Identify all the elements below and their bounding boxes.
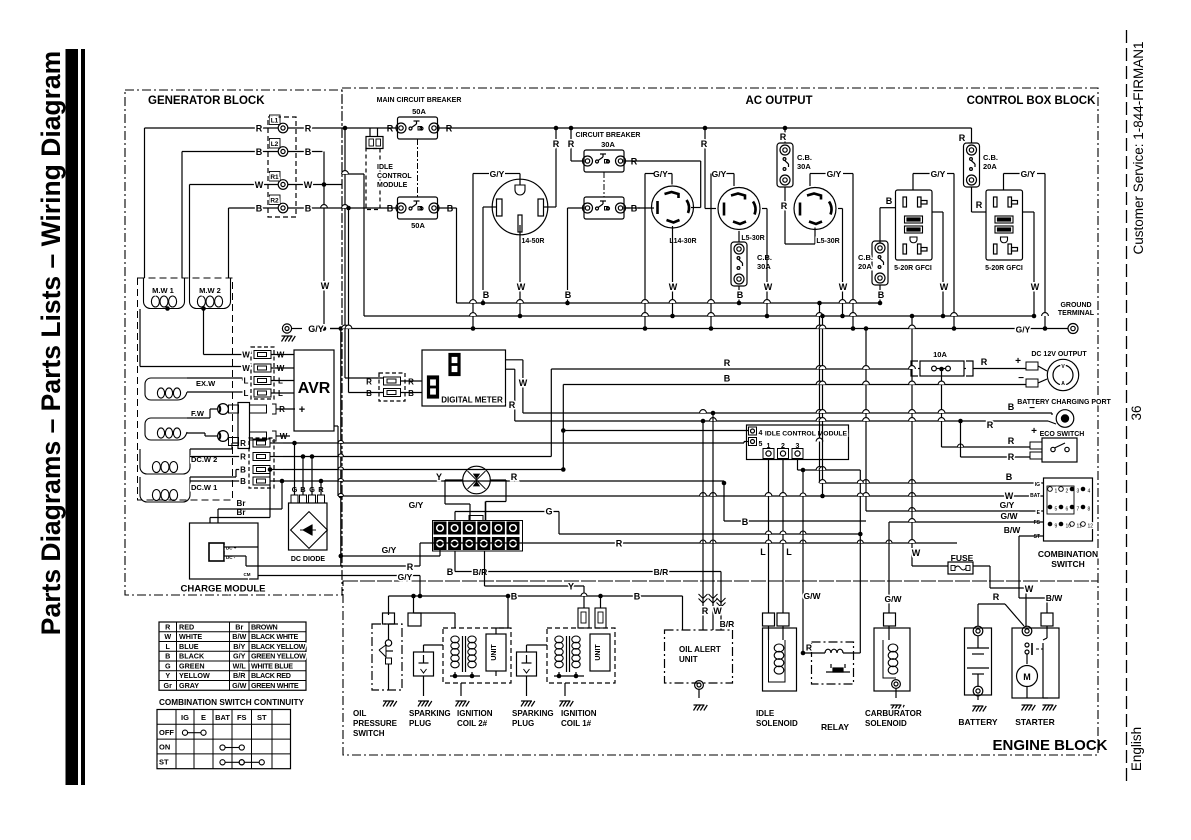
svg-text:IDLE CONTROL MODULE: IDLE CONTROL MODULE <box>765 431 848 438</box>
combination switch <box>1044 478 1093 541</box>
svg-text:GRAY: GRAY <box>179 681 199 690</box>
GFCI receptacle 5-20R no.2 <box>986 190 1023 260</box>
svg-text:4: 4 <box>759 430 763 437</box>
svg-text:DC.W 1: DC.W 1 <box>191 483 217 492</box>
idle module pin3 wire <box>797 459 799 471</box>
svg-text:20A: 20A <box>858 262 872 271</box>
wire B to L14-30R left pin <box>624 207 654 209</box>
svg-text:B: B <box>511 592 518 602</box>
svg-text:B/W: B/W <box>1004 525 1022 535</box>
svg-text:RED: RED <box>179 622 194 631</box>
svg-text:B: B <box>240 477 246 486</box>
wire B/R line to oil alert <box>455 571 721 573</box>
wire B riser from AVR B row <box>562 385 564 470</box>
terminal R2 <box>278 203 288 213</box>
wire W L5-30R no.2 <box>838 208 843 210</box>
right page divider dashed rule <box>1126 30 1128 783</box>
svg-text:20A: 20A <box>983 162 997 171</box>
svg-text:R: R <box>509 400 516 410</box>
svg-text:EX.W: EX.W <box>196 379 216 388</box>
svg-text:TERMINAL: TERMINAL <box>1058 310 1095 317</box>
wire W taps from main windings to AVR connector <box>203 309 205 355</box>
svg-text:ENGINE BLOCK: ENGINE BLOCK <box>992 737 1107 754</box>
svg-text:ST: ST <box>159 757 169 766</box>
svg-text:R: R <box>408 378 414 387</box>
svg-text:C.B.: C.B. <box>797 153 812 162</box>
svg-text:IG: IG <box>181 713 189 722</box>
wire Y from pin10 <box>484 551 486 586</box>
svg-text:COIL 1#: COIL 1# <box>561 719 592 728</box>
digital meter <box>422 350 506 406</box>
svg-text:G/Y: G/Y <box>490 169 505 179</box>
wire W riser from W bus to W main line <box>822 316 824 496</box>
left thin rule <box>81 49 85 785</box>
svg-text:Y: Y <box>568 582 574 592</box>
svg-text:GREEN: GREEN <box>179 661 205 670</box>
wire R row from AVR to R bus riser <box>283 456 551 458</box>
svg-text:B: B <box>408 389 414 398</box>
main circuit breaker 50A (R pole) <box>398 117 438 139</box>
wire R fuse to DC 12V output <box>973 368 1026 370</box>
svg-text:R: R <box>240 439 246 448</box>
svg-text:ECO SWITCH: ECO SWITCH <box>1040 431 1085 438</box>
wire R 14-50R <box>544 206 557 208</box>
receptacle L14-30R <box>652 186 694 228</box>
svg-text:L: L <box>166 642 171 651</box>
svg-text:Customer Service: 1-844-FIRMAN: Customer Service: 1-844-FIRMAN1 <box>1131 41 1146 254</box>
12-pin connector <box>433 521 523 552</box>
charge module G/Y output wire <box>258 575 420 577</box>
wire color code table <box>159 622 306 690</box>
svg-text:B/R: B/R <box>233 671 246 680</box>
svg-text:L2: L2 <box>271 141 279 148</box>
svg-text:B/Y: B/Y <box>233 642 245 651</box>
wire R bus to 12V fuse <box>551 368 911 370</box>
circuit breaker 30A (R pole) <box>584 150 624 172</box>
wires into idle control module <box>563 430 748 432</box>
wire W from digital meter to charging port <box>506 359 523 361</box>
wires R to eco switch <box>942 446 1031 448</box>
svg-text:L5-30R: L5-30R <box>816 238 839 245</box>
AVR output connector R R B B <box>249 438 274 488</box>
svg-text:6: 6 <box>1066 507 1069 513</box>
ignition coil 2# <box>443 628 511 683</box>
svg-text:FS: FS <box>237 713 247 722</box>
svg-text:W: W <box>242 351 250 360</box>
svg-text:BATTERY CHARGING PORT: BATTERY CHARGING PORT <box>1017 399 1111 406</box>
svg-text:+: + <box>1031 426 1037 437</box>
wire B riser from B wire to meter <box>348 208 350 393</box>
svg-text:W: W <box>519 378 528 388</box>
svg-text:5-20R GFCI: 5-20R GFCI <box>894 265 932 272</box>
svg-text:G/Y: G/Y <box>712 169 727 179</box>
svg-text:IGNITION: IGNITION <box>561 709 597 718</box>
relay contact <box>830 664 832 668</box>
wire G/Y riser to combination switch <box>865 329 867 512</box>
idle solenoid <box>763 628 797 691</box>
svg-text:50A: 50A <box>411 221 425 230</box>
svg-text:DC DIODE: DC DIODE <box>291 556 326 563</box>
excitation winding EX.W <box>145 378 187 400</box>
svg-text:C.B.: C.B. <box>983 153 998 162</box>
wire W GFCI no.2 <box>1023 211 1035 213</box>
wire G from 12-pin connector <box>454 512 456 522</box>
circuit breaker C.B. 30A feeding L5-30R no.2 <box>777 143 793 187</box>
carburator solenoid <box>874 628 910 691</box>
svg-text:W: W <box>764 282 773 292</box>
svg-text:M.W 2: M.W 2 <box>199 286 221 295</box>
svg-text:G/W: G/W <box>885 594 903 604</box>
svg-text:B/R: B/R <box>720 619 735 629</box>
AVR input connector W W L L <box>251 347 274 399</box>
wire G/Y L5-30R no.2 <box>809 174 811 187</box>
svg-text:W: W <box>940 282 949 292</box>
battery <box>965 628 992 695</box>
svg-text:W: W <box>1031 282 1040 292</box>
svg-text:R: R <box>616 539 623 549</box>
circuit breaker 30A (B pole) <box>584 197 624 219</box>
terminal L1 <box>278 123 288 133</box>
sparking plug no.2 wire to coil <box>526 645 528 652</box>
wire W fuse to starter <box>973 565 990 567</box>
svg-text:B: B <box>724 374 731 384</box>
svg-text:CONTROL: CONTROL <box>377 173 412 180</box>
svg-text:BATTERY: BATTERY <box>958 717 998 727</box>
svg-text:MODULE: MODULE <box>377 182 408 189</box>
wire B from pin8 <box>454 551 456 572</box>
svg-text:Br: Br <box>235 622 243 631</box>
svg-text:B/W: B/W <box>232 632 246 641</box>
receptacle L5-30R no.2 <box>794 188 836 230</box>
wire B 14-50R <box>483 206 497 208</box>
wire W main line <box>338 495 1044 497</box>
svg-text:W: W <box>517 282 526 292</box>
receptacle 14-50R <box>492 179 548 235</box>
wire W riser at left of AC area <box>363 174 365 316</box>
svg-text:Y: Y <box>165 671 170 680</box>
svg-text:G/Y: G/Y <box>653 169 668 179</box>
svg-text:G/Y: G/Y <box>1016 325 1031 335</box>
svg-text:B/R: B/R <box>473 567 488 577</box>
ignition coil 1 connectors <box>578 608 589 628</box>
svg-text:G: G <box>165 661 171 670</box>
wire W from W bus down to fuse <box>911 316 913 566</box>
svg-text:R: R <box>987 420 994 430</box>
GFCI receptacle 5-20R no.1 <box>896 190 933 260</box>
wire Y drop to ignition coil 1 <box>583 586 585 608</box>
svg-text:YELLOW: YELLOW <box>179 671 210 680</box>
svg-text:SOLENOID: SOLENOID <box>865 719 907 728</box>
svg-text:STARTER: STARTER <box>1015 717 1055 727</box>
svg-text:GENERATOR BLOCK: GENERATOR BLOCK <box>148 95 265 107</box>
svg-text:7: 7 <box>1077 507 1080 513</box>
continuity link ON: BAT-FS <box>220 745 225 750</box>
breaker mechanical link <box>417 139 419 197</box>
svg-text:ON: ON <box>159 743 170 752</box>
svg-text:G/Y: G/Y <box>931 169 946 179</box>
svg-text:Gr: Gr <box>164 681 173 690</box>
svg-text:R: R <box>781 201 788 211</box>
idle control module (control box) <box>747 425 849 460</box>
wire B GFCI no.1 from C.B. <box>879 208 881 243</box>
idle module pin wires L L down to idle solenoid <box>768 459 770 614</box>
svg-text:B: B <box>305 204 312 214</box>
svg-text:A: A <box>1061 381 1065 387</box>
svg-text:F.W: F.W <box>191 409 205 418</box>
wire B/W connector at starter <box>1041 613 1053 626</box>
svg-text:R: R <box>568 139 575 149</box>
charge module R output stub <box>238 546 258 548</box>
svg-text:IDLE: IDLE <box>756 709 775 718</box>
combination switch continuity table <box>157 710 291 769</box>
svg-text:B: B <box>565 290 572 300</box>
svg-text:G/W: G/W <box>1001 511 1019 521</box>
idle control module connector (generator side) <box>366 137 383 149</box>
svg-text:+: + <box>1015 356 1021 367</box>
oil pressure switch <box>383 613 395 624</box>
svg-text:B: B <box>305 147 312 157</box>
B bus <box>457 302 881 304</box>
svg-text:R: R <box>165 622 171 631</box>
svg-text:4: 4 <box>1088 489 1091 495</box>
svg-text:RELAY: RELAY <box>821 722 849 732</box>
oil alert unit wires R W B/R <box>702 421 704 630</box>
left thick rule <box>66 49 79 785</box>
wire R riser from R bus to meter <box>344 128 346 378</box>
wire R to L14-30R right pin <box>624 160 701 162</box>
wire G/Y GFCI no.2 <box>1003 174 1005 191</box>
DC diode rectifier <box>289 503 328 550</box>
svg-text:CARBURATOR: CARBURATOR <box>865 709 922 718</box>
svg-text:AC OUTPUT: AC OUTPUT <box>745 95 812 107</box>
continuity link ST: BAT-FS-ST <box>220 760 225 765</box>
continuity link OFF: IG-E <box>182 730 187 735</box>
svg-text:Y: Y <box>436 472 442 482</box>
G/Y bus <box>330 328 1068 330</box>
svg-text:ST: ST <box>257 713 267 722</box>
svg-text:L: L <box>244 389 249 398</box>
svg-text:PLUG: PLUG <box>409 719 431 728</box>
svg-text:IGNITION: IGNITION <box>457 709 493 718</box>
svg-text:W: W <box>1005 491 1014 501</box>
svg-text:R1: R1 <box>270 174 279 181</box>
charge module <box>190 523 259 579</box>
svg-text:R: R <box>780 132 787 142</box>
svg-text:CIRCUIT BREAKER: CIRCUIT BREAKER <box>576 132 641 139</box>
svg-text:G/Y: G/Y <box>1021 169 1036 179</box>
svg-text:BAT: BAT <box>1030 493 1040 499</box>
svg-text:G/Y: G/Y <box>1000 500 1015 510</box>
generator G/Y ground terminal <box>282 324 291 333</box>
svg-text:R: R <box>256 124 263 134</box>
svg-text:M: M <box>1023 672 1031 682</box>
svg-text:R2: R2 <box>270 198 279 205</box>
svg-text:R: R <box>1008 436 1015 446</box>
svg-text:R: R <box>366 378 372 387</box>
svg-text:R: R <box>511 472 518 482</box>
svg-text:English: English <box>1129 727 1144 771</box>
svg-text:IDLE: IDLE <box>377 164 393 171</box>
svg-text:DC 12V OUTPUT: DC 12V OUTPUT <box>1031 351 1087 358</box>
svg-text:2: 2 <box>1066 489 1069 495</box>
svg-text:E: E <box>201 713 206 722</box>
svg-text:COMBINATION: COMBINATION <box>1038 549 1098 559</box>
svg-text:12: 12 <box>1088 524 1094 530</box>
svg-text:B: B <box>256 147 263 157</box>
wire B bus <box>563 384 1026 386</box>
sparking plug no.1 <box>414 652 434 676</box>
svg-text:R: R <box>701 139 708 149</box>
svg-text:GREEN WHITE: GREEN WHITE <box>251 681 299 690</box>
svg-text:PLUG: PLUG <box>512 719 534 728</box>
field winding F.W <box>145 418 187 440</box>
wire drops to coil2 <box>413 596 415 613</box>
wire G/Y from ground bus down to 12-pin connector <box>339 326 344 331</box>
svg-text:R: R <box>976 200 983 210</box>
svg-text:Parts Diagrams – Parts Lists –: Parts Diagrams – Parts Lists – Wiring Di… <box>36 51 66 635</box>
W bus <box>364 315 1035 317</box>
wire W 14-50R <box>519 225 521 316</box>
svg-text:−: − <box>1018 373 1024 384</box>
svg-text:SWITCH: SWITCH <box>353 729 385 738</box>
svg-text:B/R: B/R <box>654 567 669 577</box>
svg-text:B: B <box>742 517 749 527</box>
svg-text:B: B <box>447 567 454 577</box>
wire G/Y GFCI no.1 <box>912 174 914 191</box>
main winding M.W 1 <box>144 278 185 309</box>
wire R from digital meter to charging port <box>506 368 515 370</box>
svg-text:R: R <box>959 133 966 143</box>
wire W GFCI no.1 <box>932 211 943 213</box>
svg-text:36: 36 <box>1129 405 1144 420</box>
svg-text:5: 5 <box>759 441 763 448</box>
ignition coil 1# <box>547 628 615 683</box>
svg-text:BROWN: BROWN <box>251 622 278 631</box>
charge module R wire to R bus <box>234 555 246 557</box>
svg-text:5: 5 <box>1055 507 1058 513</box>
wire B drop to coil1 connector <box>598 594 603 599</box>
svg-text:C.B.: C.B. <box>858 253 873 262</box>
svg-text:W: W <box>713 606 722 616</box>
svg-text:GROUND: GROUND <box>1060 302 1091 309</box>
receptacle L5-30R no.1 <box>718 188 760 230</box>
svg-text:B: B <box>256 204 263 214</box>
svg-text:R: R <box>407 562 414 572</box>
svg-text:L14-30R: L14-30R <box>669 238 696 245</box>
wire B from 50A breaker to B bus <box>456 208 458 303</box>
wire G/Y 14-50R <box>519 174 521 186</box>
main winding M.W 2 <box>190 278 231 309</box>
svg-text:R: R <box>993 592 1000 602</box>
wire W L5-30R no.1 <box>762 208 767 210</box>
svg-text:FS: FS <box>1034 520 1041 526</box>
svg-text:G: G <box>545 507 552 517</box>
svg-text:UNIT: UNIT <box>491 644 498 661</box>
svg-text:W: W <box>242 364 250 373</box>
svg-text:W/L: W/L <box>233 661 247 670</box>
svg-text:G/W: G/W <box>232 681 247 690</box>
generator block frame <box>125 90 342 595</box>
svg-text:G/Y: G/Y <box>409 500 424 510</box>
svg-text:B: B <box>240 466 246 475</box>
svg-text:Br: Br <box>237 499 246 508</box>
oil alert unit <box>665 630 733 683</box>
sparking plug no.2 <box>517 652 537 676</box>
svg-text:DIGITAL METER: DIGITAL METER <box>441 396 503 405</box>
svg-text:WHITE BLUE: WHITE BLUE <box>251 661 293 670</box>
wire B from M.W1 to L2 <box>182 151 278 153</box>
wire B from B bus to combination switch <box>819 303 821 483</box>
svg-text:50A: 50A <box>412 107 426 116</box>
svg-text:ST: ST <box>1034 534 1040 540</box>
svg-text:SOLENOID: SOLENOID <box>756 719 798 728</box>
svg-text:OFF: OFF <box>159 728 174 737</box>
svg-text:W: W <box>304 180 313 190</box>
svg-text:CONTROL BOX BLOCK: CONTROL BOX BLOCK <box>967 95 1097 107</box>
svg-text:OIL ALERT: OIL ALERT <box>679 645 721 654</box>
wire W from M.W2 to R1 <box>190 184 279 186</box>
svg-text:G/Y: G/Y <box>398 572 413 582</box>
svg-text:B: B <box>165 652 170 661</box>
svg-text:PRESSURE: PRESSURE <box>353 719 398 728</box>
svg-text:W: W <box>321 281 330 291</box>
svg-text:L5-30R: L5-30R <box>741 235 764 242</box>
svg-text:BAT: BAT <box>215 713 230 722</box>
svg-text:COMBINATION SWITCH CONTINUITY: COMBINATION SWITCH CONTINUITY <box>159 698 304 707</box>
svg-text:SPARKING: SPARKING <box>409 709 451 718</box>
svg-text:BLACK WHITE: BLACK WHITE <box>251 632 299 641</box>
svg-text:R: R <box>240 453 246 462</box>
DC winding DC.W 2 <box>140 449 190 474</box>
svg-text:W: W <box>164 632 171 641</box>
svg-text:AVR: AVR <box>298 380 331 397</box>
svg-text:MAIN CIRCUIT BREAKER: MAIN CIRCUIT BREAKER <box>377 97 462 104</box>
wire R to L5-30R no.1 <box>704 128 706 209</box>
svg-text:L: L <box>244 377 249 386</box>
svg-text:5-20R GFCI: 5-20R GFCI <box>985 265 1023 272</box>
svg-text:1: 1 <box>1055 489 1058 495</box>
svg-text:R: R <box>724 358 731 368</box>
svg-text:M.W 1: M.W 1 <box>152 286 174 295</box>
wire G/W from combination switch to carburator solenoid <box>889 521 1044 523</box>
svg-text:R: R <box>1008 452 1015 462</box>
wire R riser from AVR R row <box>550 369 552 457</box>
main circuit breaker 50A (B pole) <box>398 197 438 219</box>
relay <box>812 642 854 684</box>
svg-text:B: B <box>1008 402 1015 412</box>
svg-text:CHARGE MODULE: CHARGE MODULE <box>181 584 266 595</box>
svg-text:L1: L1 <box>271 118 279 125</box>
AVR unit <box>294 350 334 431</box>
svg-text:BLACK YELLOW: BLACK YELLOW <box>251 642 306 651</box>
svg-text:R: R <box>553 139 560 149</box>
svg-text:BLUE: BLUE <box>179 642 199 651</box>
svg-text:W: W <box>839 282 848 292</box>
svg-text:L: L <box>786 547 792 557</box>
svg-text:W: W <box>255 180 264 190</box>
svg-text:G/Y: G/Y <box>827 169 842 179</box>
svg-text:R: R <box>305 124 312 134</box>
terminal L2 <box>278 147 288 157</box>
wire G/Y L14-30R <box>671 174 673 185</box>
svg-text:+: + <box>299 404 305 416</box>
svg-text:UNIT: UNIT <box>595 644 602 661</box>
svg-text:8: 8 <box>1088 507 1091 513</box>
svg-text:W: W <box>1025 584 1034 594</box>
svg-text:3: 3 <box>1077 489 1080 495</box>
wire W L14-30R <box>672 226 674 316</box>
svg-text:R: R <box>981 357 988 367</box>
